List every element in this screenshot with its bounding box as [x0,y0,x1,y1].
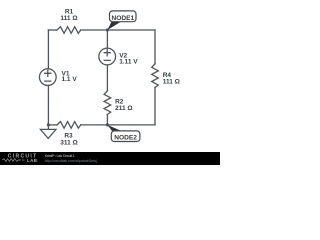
junction dot left [47,123,50,126]
wire bottom-left stub [48,124,57,126]
junction node A [106,28,109,31]
label R3 [60,133,78,147]
label V1 [62,71,78,84]
wire right rail lower [154,88,156,125]
svg-text:211 Ω: 211 Ω [115,105,133,112]
label R1 [60,8,77,21]
ground [40,125,56,138]
label R4 [163,72,180,86]
svg-text:LAB: LAB [27,158,37,163]
resistor R4 [152,64,159,88]
wire left rail lower [47,86,49,125]
wire right rail upper [154,30,156,64]
wire bottom middle segment [81,124,155,126]
resistor R3 [57,122,81,129]
wire top-right segment [81,29,155,31]
junction node B [106,123,109,126]
svg-text:111 Ω: 111 Ω [60,15,77,22]
flag NODE1 [107,11,136,30]
wire middle rail mid [106,65,108,91]
resistor R2 [104,91,111,115]
wire top-left segment [48,29,57,31]
voltage source V1 [39,69,56,86]
logo CircuitLab [2,154,37,163]
svg-text:311 Ω: 311 Ω [60,140,78,147]
label V2 [119,53,138,66]
wire middle rail upper [106,30,108,48]
svg-text:1.1 V: 1.1 V [62,76,78,83]
label R2 [115,99,133,112]
wire middle rail lower [106,115,108,125]
footer bar [0,152,220,165]
svg-text:NODE2: NODE2 [114,135,137,142]
flag NODE2 [107,125,140,142]
voltage source V2 [99,48,116,65]
svg-text:1.11 V: 1.11 V [119,58,138,65]
svg-text:KristiP : Lab Circuit 1: KristiP : Lab Circuit 1 [45,154,75,158]
resistor R1 [57,27,81,34]
wire left rail upper [47,30,49,69]
svg-text:111 Ω: 111 Ω [163,79,180,86]
svg-text:http://circuitlab.com/c6pxkwh2: http://circuitlab.com/c6pxkwh2mkj [45,159,97,163]
svg-text:NODE1: NODE1 [111,15,134,22]
svg-text:R3: R3 [64,133,73,140]
